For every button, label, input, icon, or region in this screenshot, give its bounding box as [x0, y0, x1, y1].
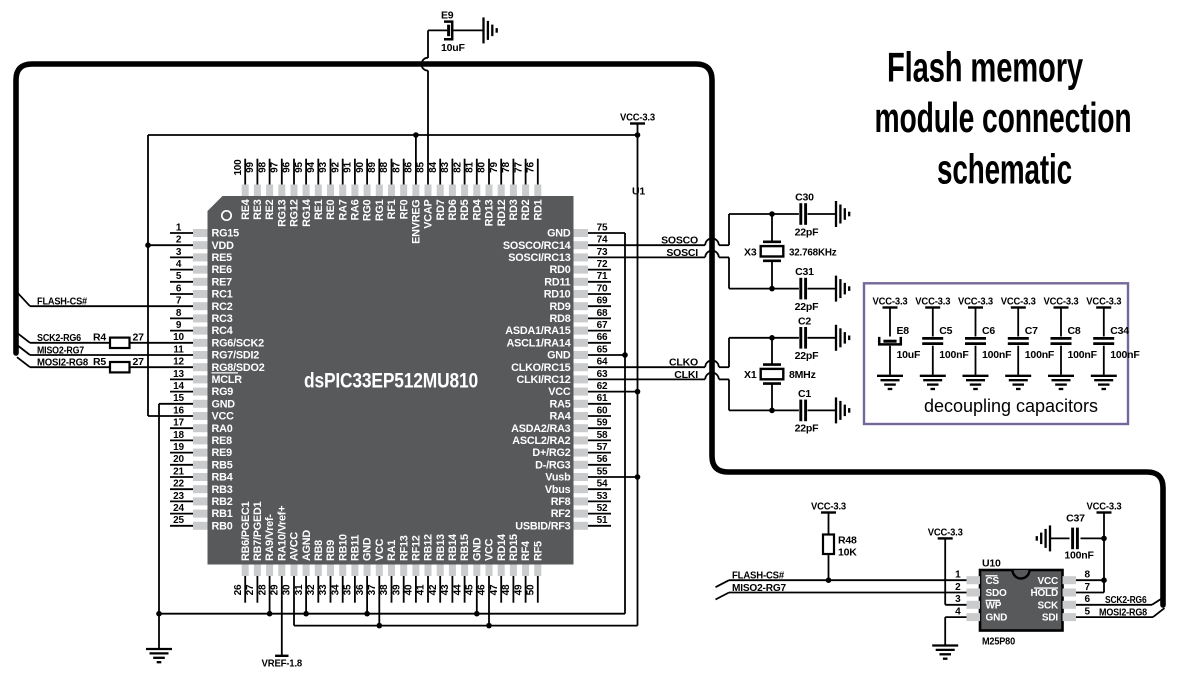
U1 pin 86 (ENVREG) — [404, 162, 423, 244]
svg-text:8MHz: 8MHz — [789, 369, 816, 381]
svg-text:RG14: RG14 — [301, 199, 313, 227]
U1 pin 100 (RE4) — [233, 159, 252, 220]
wire pin 29 Vref+ down — [281, 576, 283, 656]
svg-text:90: 90 — [355, 162, 366, 173]
svg-text:VCC: VCC — [548, 386, 571, 398]
U1 pin 65 (GND) — [547, 344, 608, 361]
svg-text:36: 36 — [355, 584, 366, 595]
VREF-1.8 terminal bar — [275, 655, 288, 657]
svg-text:88: 88 — [379, 162, 390, 173]
svg-text:14: 14 — [173, 381, 184, 392]
wire pin 45 to gnd rail — [476, 576, 478, 614]
VCC-3.3 power symbol (U10 WP) — [928, 527, 963, 539]
svg-text:33: 33 — [318, 584, 329, 595]
svg-text:23: 23 — [173, 491, 184, 502]
junction node pin 62 — [635, 389, 641, 395]
svg-text:29: 29 — [270, 584, 281, 595]
wire VCAP to capacitor E9 — [428, 29, 447, 31]
svg-text:GND: GND — [986, 613, 1008, 624]
U1 pin 85 (VCAP) — [416, 162, 435, 229]
svg-text:60: 60 — [597, 405, 608, 416]
svg-text:SCK2-RG6: SCK2-RG6 — [1105, 594, 1147, 606]
decoupling capacitors box — [864, 283, 1128, 424]
U1 pin 68 (RD8) — [550, 308, 612, 325]
svg-text:SOSCO: SOSCO — [661, 235, 698, 247]
svg-text:VCC-3.3: VCC-3.3 — [1001, 296, 1036, 308]
svg-text:10uF: 10uF — [897, 349, 921, 361]
svg-text:30: 30 — [282, 584, 293, 595]
wire C37 to ground — [1050, 537, 1070, 539]
svg-text:37: 37 — [367, 584, 378, 595]
svg-text:15: 15 — [173, 393, 184, 404]
main module border wire (thick) — [16, 64, 1163, 605]
wire pin 36 to gnd rail — [366, 576, 368, 614]
wire VCC-3.3 to rail corner — [637, 124, 639, 136]
svg-text:C5: C5 — [939, 325, 952, 337]
U1 pin 98 (RE2) — [257, 159, 276, 220]
svg-text:75: 75 — [597, 222, 608, 233]
wire U10 pin 6 SCK to border — [1076, 604, 1152, 606]
wire C30 to ground — [808, 213, 837, 215]
resistor R48 body — [823, 535, 834, 555]
wire VCC to E8 — [889, 308, 891, 337]
ground symbol (E9) — [484, 17, 497, 43]
U1 pin 69 (RD9) — [550, 296, 612, 313]
ground symbol (C30) — [836, 201, 849, 227]
svg-text:GND: GND — [547, 350, 571, 362]
svg-text:RG6/SCK2: RG6/SCK2 — [212, 337, 265, 349]
svg-text:RF13: RF13 — [398, 535, 410, 561]
wire U10 pin 7 HOLD — [1076, 592, 1104, 594]
svg-text:SDI: SDI — [1042, 613, 1058, 624]
svg-text:5: 5 — [1085, 607, 1091, 618]
svg-text:RE1: RE1 — [313, 199, 325, 220]
junction node crystal top — [769, 211, 775, 217]
wire R48 to FLASH-CS# wire — [828, 554, 830, 580]
wire pin 55 Vusb — [588, 476, 638, 478]
U10 pin 7 (HOLD) — [1030, 582, 1090, 599]
svg-text:43: 43 — [440, 584, 451, 595]
U1 pin 50 (RF5) — [526, 541, 545, 603]
svg-text:RD10: RD10 — [544, 289, 571, 301]
svg-text:CS: CS — [986, 576, 1000, 587]
svg-text:CLKI/RC12: CLKI/RC12 — [517, 374, 571, 386]
U10 pin 3 (WP) — [955, 594, 1002, 611]
U1 pin 6 (RC1) — [170, 283, 233, 300]
wire SCK2-RG6 to resistor R4 — [30, 342, 110, 344]
svg-text:VCC-3.3: VCC-3.3 — [1086, 296, 1121, 308]
svg-text:77: 77 — [513, 162, 524, 173]
U1 pin 57 (D+/RG2) — [532, 442, 611, 459]
wire C2 to ground — [808, 337, 837, 339]
U1 pin 80 (RD13) — [477, 159, 496, 227]
svg-text:RB11: RB11 — [350, 535, 362, 561]
svg-text:RF5: RF5 — [532, 541, 544, 561]
diagonal stub FLASH-CS# — [17, 292, 30, 306]
svg-text:USBID/RF3: USBID/RF3 — [515, 520, 570, 532]
capacitor E9 (electrolytic, horizontal) — [447, 25, 450, 37]
svg-text:RA9/Vref-: RA9/Vref- — [264, 514, 276, 561]
svg-text:ASCL2/RA2: ASCL2/RA2 — [512, 435, 570, 447]
svg-text:HOLD: HOLD — [1030, 588, 1058, 599]
svg-text:Flash memory: Flash memory — [887, 44, 1083, 91]
svg-text:4: 4 — [955, 607, 961, 618]
microcontroller U1 dsPIC33EP512MU810 body — [208, 196, 574, 565]
svg-text:VCC-3.3: VCC-3.3 — [873, 296, 908, 308]
svg-text:22: 22 — [173, 479, 184, 490]
svg-text:44: 44 — [452, 584, 463, 595]
U1 pin 30 (AVCC) — [282, 532, 301, 596]
svg-text:82: 82 — [452, 162, 463, 173]
U1 pin 35 (RB11) — [343, 535, 362, 603]
svg-text:100nF: 100nF — [1068, 349, 1098, 361]
U1 pin 52 (RF2) — [551, 503, 611, 520]
wire pin 31 to gnd rail — [305, 576, 307, 614]
svg-text:70: 70 — [597, 283, 608, 294]
svg-text:U1: U1 — [632, 186, 645, 198]
svg-text:VCC-3.3: VCC-3.3 — [620, 112, 655, 124]
svg-text:ENVREG: ENVREG — [411, 200, 423, 244]
svg-text:27: 27 — [133, 332, 145, 344]
U1 pin 93 (RE0) — [318, 159, 337, 220]
crystal X3 symbol — [771, 214, 773, 241]
junction node R48/FLASH-CS# — [826, 577, 832, 583]
svg-text:46: 46 — [477, 584, 488, 595]
svg-text:RB9: RB9 — [325, 540, 337, 561]
resistor R5 body — [110, 362, 130, 372]
svg-text:51: 51 — [597, 515, 608, 526]
svg-text:WP: WP — [986, 600, 1002, 611]
svg-text:RG15: RG15 — [212, 228, 240, 240]
resistor R4 body — [110, 338, 130, 348]
capacitor C1 plates — [799, 400, 802, 422]
svg-text:53: 53 — [597, 491, 608, 502]
U1 pin 33 (RB9) — [318, 540, 337, 603]
svg-text:100nF: 100nF — [982, 349, 1012, 361]
U10 pin 2 (SDO) — [955, 582, 1007, 599]
wire VCC rail left vertical to pin 16 — [147, 135, 149, 416]
svg-text:RB14: RB14 — [447, 534, 459, 561]
svg-text:RC2: RC2 — [212, 301, 233, 313]
wire U10 pin 4 GND to ground — [945, 616, 966, 618]
wire VCC to R48 — [828, 513, 830, 535]
wire VCC to U10 pin 3 WP — [944, 538, 946, 604]
svg-text:26: 26 — [233, 584, 244, 595]
svg-text:11: 11 — [173, 344, 184, 355]
svg-text:64: 64 — [597, 357, 608, 368]
GND bottom rail wire — [159, 613, 625, 615]
svg-text:27: 27 — [245, 584, 256, 595]
svg-text:7: 7 — [176, 296, 182, 307]
svg-text:SCK: SCK — [1037, 600, 1058, 611]
ground symbol (C37) — [1037, 525, 1050, 551]
U1 pin 89 (RG1) — [367, 159, 386, 221]
svg-text:RF0: RF0 — [398, 199, 410, 219]
svg-text:92: 92 — [330, 162, 341, 173]
svg-text:RD6: RD6 — [447, 199, 459, 220]
GND right vertical wire — [624, 233, 626, 614]
svg-text:RD3: RD3 — [508, 199, 520, 220]
svg-text:VREF-1.8: VREF-1.8 — [262, 658, 303, 670]
U1 pin 82 (RD5) — [452, 159, 471, 221]
svg-text:39: 39 — [391, 584, 402, 595]
svg-text:3: 3 — [176, 247, 182, 258]
svg-text:RC1: RC1 — [212, 289, 233, 301]
svg-text:100: 100 — [233, 159, 244, 176]
ground symbol (C5) — [920, 376, 946, 389]
svg-text:55: 55 — [597, 466, 608, 477]
svg-text:16: 16 — [173, 405, 184, 416]
svg-text:RD15: RD15 — [508, 534, 520, 561]
wire hop (CLK top) — [705, 360, 719, 367]
svg-text:47: 47 — [489, 584, 500, 595]
U1 pin 44 (RB15) — [452, 534, 471, 603]
U1 pin 78 (RD3) — [501, 159, 520, 221]
svg-text:RB4: RB4 — [212, 472, 233, 484]
junction node pin 46 vcc — [486, 623, 492, 629]
svg-text:CLKO/RC15: CLKO/RC15 — [511, 362, 571, 374]
svg-text:17: 17 — [173, 418, 184, 429]
svg-text:RG8/SDO2: RG8/SDO2 — [212, 362, 265, 374]
U1 pin 36 (GND) — [355, 537, 374, 595]
svg-text:2: 2 — [176, 235, 182, 246]
wire R4 to pin 10 — [130, 342, 194, 344]
svg-text:50: 50 — [526, 584, 537, 595]
svg-text:RE6: RE6 — [212, 264, 233, 276]
U1 pin 63 (CLKI/RC12) — [517, 369, 608, 386]
U1 pin 13 (MCLR) — [170, 369, 242, 386]
VCC-3.3 power symbol (C8) — [1044, 296, 1079, 308]
svg-text:32: 32 — [306, 584, 317, 595]
svg-text:3: 3 — [955, 594, 961, 605]
svg-text:RD9: RD9 — [550, 301, 571, 313]
U1 pin 49 (RF4) — [513, 541, 532, 603]
U1 pin 16 (VCC) — [173, 405, 234, 422]
U1 pin 27 (RB7/PGED1) — [245, 501, 264, 602]
U1 pin 79 (RD12) — [489, 159, 508, 227]
svg-text:U10: U10 — [982, 558, 1001, 570]
U1 pin 11 (RG7/SDI2) — [173, 344, 259, 361]
svg-text:ASCL1/RA14: ASCL1/RA14 — [507, 337, 571, 349]
svg-text:dsPIC33EP512MU810: dsPIC33EP512MU810 — [304, 369, 478, 393]
wire MOSI2-RG8 to resistor R5 — [30, 366, 110, 368]
svg-text:56: 56 — [597, 454, 608, 465]
svg-text:100nF: 100nF — [939, 349, 969, 361]
svg-text:E8: E8 — [897, 325, 910, 337]
svg-text:41: 41 — [416, 584, 427, 595]
svg-text:VCC-3.3: VCC-3.3 — [1087, 501, 1122, 513]
diagonal stub SCK2-RG6 — [17, 333, 30, 343]
svg-text:VCC-3.3: VCC-3.3 — [915, 296, 950, 308]
svg-text:24: 24 — [173, 503, 184, 514]
U1 pin 7 (RC2) — [176, 296, 233, 313]
U1 pin 73 (SOSCI/RC13) — [508, 247, 608, 264]
svg-text:RE4: RE4 — [240, 199, 252, 220]
wire C37 to VCC vertical — [1081, 537, 1105, 539]
svg-text:8: 8 — [1085, 570, 1091, 581]
svg-text:RF1: RF1 — [386, 199, 398, 219]
wire hop (CLK bottom) — [705, 373, 719, 380]
svg-text:RE8: RE8 — [212, 435, 233, 447]
svg-text:MISO2-RG7: MISO2-RG7 — [37, 344, 84, 356]
diagonal stub MOSI2-RG8 (right) — [1153, 608, 1165, 617]
svg-text:C34: C34 — [1110, 325, 1129, 337]
U1 pin 81 (RD4) — [465, 159, 484, 221]
ground symbol (C34) — [1091, 376, 1117, 389]
ground symbol (main, bottom left) — [146, 649, 172, 662]
U1 pin 71 (RD11) — [544, 271, 611, 288]
U10 pin 6 (SCK) — [1037, 594, 1090, 611]
junction node crystal bottom — [769, 286, 775, 292]
svg-text:RD7: RD7 — [435, 199, 447, 220]
U1 pin-1 indicator circle — [222, 211, 231, 220]
svg-text:RD8: RD8 — [550, 313, 571, 325]
svg-text:RD0: RD0 — [550, 264, 571, 276]
svg-text:C6: C6 — [982, 325, 995, 337]
svg-text:RD4: RD4 — [471, 199, 483, 220]
svg-text:61: 61 — [597, 393, 608, 404]
U1 pin 24 (RB1) — [170, 503, 233, 520]
svg-text:2: 2 — [955, 582, 961, 593]
svg-text:35: 35 — [343, 584, 354, 595]
svg-text:RF12: RF12 — [411, 535, 423, 561]
U1 pin 96 (RG12) — [282, 159, 301, 227]
wire VCC down to pin 8 node — [1103, 513, 1105, 581]
U1 pin 72 (RD0) — [550, 259, 612, 276]
wire crystal bottom rail — [729, 409, 799, 411]
svg-text:ASDA1/RA15: ASDA1/RA15 — [505, 325, 570, 337]
svg-text:RE0: RE0 — [325, 199, 337, 220]
svg-text:RE5: RE5 — [212, 252, 233, 264]
svg-text:RD2: RD2 — [520, 199, 532, 220]
svg-text:63: 63 — [597, 369, 608, 380]
U1 pin 74 (SOSCO/RC14) — [503, 235, 608, 252]
U1 pin 31 (AGND) — [294, 530, 313, 596]
svg-text:C8: C8 — [1068, 325, 1081, 337]
U1 pin 92 (RA7) — [330, 159, 349, 221]
wire E9 to ground — [453, 29, 483, 31]
wire C34 to ground — [1103, 346, 1105, 375]
U1 pin 2 (VDD) — [176, 235, 234, 252]
svg-text:10: 10 — [173, 332, 184, 343]
svg-text:RA5: RA5 — [550, 398, 571, 410]
svg-text:SCK2-RG6: SCK2-RG6 — [37, 332, 81, 344]
U1 pin 1 (RG15) — [170, 222, 239, 239]
svg-text:RB5: RB5 — [212, 459, 233, 471]
U1 pin 56 (D-/RG3) — [535, 454, 611, 471]
svg-text:RB6/PGEC1: RB6/PGEC1 — [240, 501, 252, 561]
svg-text:45: 45 — [465, 584, 476, 595]
U1 pin 22 (RB3) — [170, 479, 233, 496]
svg-text:71: 71 — [597, 271, 608, 282]
svg-text:X1: X1 — [744, 369, 757, 381]
svg-text:RB0: RB0 — [212, 520, 233, 532]
svg-text:52: 52 — [597, 503, 608, 514]
svg-text:RF8: RF8 — [551, 496, 571, 508]
junction node C37/VCC — [1101, 536, 1107, 542]
wire pin 30 AVCC down — [293, 576, 295, 626]
svg-text:RD5: RD5 — [459, 199, 471, 220]
svg-text:100nF: 100nF — [1110, 349, 1140, 361]
U1 pin 67 (ASDA1/RA15) — [505, 320, 611, 337]
svg-text:95: 95 — [294, 162, 305, 173]
svg-text:RG13: RG13 — [276, 199, 288, 227]
U1 pin 19 (RE9) — [170, 442, 232, 459]
wire MISO2-RG7 to pin 11 — [30, 354, 193, 356]
svg-text:MOSI2-RG8: MOSI2-RG8 — [37, 357, 88, 369]
U1 pin 54 (Vbus) — [545, 479, 611, 496]
svg-text:AGND: AGND — [301, 530, 313, 561]
capacitor C30 plates — [799, 203, 802, 225]
U1 pin 43 (RB14) — [440, 534, 459, 603]
U1 pin 39 (RF13) — [391, 535, 410, 602]
wire pin 15 GND down — [159, 403, 193, 405]
capacitor C34 plates — [1093, 337, 1114, 340]
svg-text:59: 59 — [597, 418, 608, 429]
capacitor C6 plates — [965, 337, 986, 340]
U1 pin 42 (RB13) — [428, 534, 447, 603]
svg-text:28: 28 — [257, 584, 268, 595]
U1 pin 25 (RB0) — [170, 515, 233, 532]
U1 pin 46 (VCC) — [477, 538, 496, 595]
svg-text:58: 58 — [597, 430, 608, 441]
VCC bottom rail wire — [294, 625, 638, 627]
svg-text:100nF: 100nF — [1025, 349, 1055, 361]
U1 pin 58 (ASCL2/RA2) — [512, 430, 611, 447]
wire CLK bottom pin to crystal rail — [588, 378, 705, 380]
svg-text:AVCC: AVCC — [289, 532, 301, 561]
svg-text:100nF: 100nF — [1064, 550, 1094, 562]
wire C6 to ground — [975, 346, 977, 375]
svg-text:module connection: module connection — [875, 94, 1132, 141]
svg-text:62: 62 — [597, 381, 608, 392]
wire hop (SOSC top) — [705, 238, 719, 245]
svg-text:65: 65 — [597, 344, 608, 355]
wire U10 pin 8 VCC — [1076, 579, 1104, 581]
junction node pin 45 gnd — [474, 611, 480, 617]
svg-text:RB2: RB2 — [212, 496, 233, 508]
U1 pin 90 (RG0) — [355, 159, 374, 221]
junction node VDD pin 2 — [145, 242, 151, 248]
junction node pin 36 gnd — [364, 611, 370, 617]
svg-text:12: 12 — [173, 357, 184, 368]
svg-text:21: 21 — [173, 466, 184, 477]
U10 notch — [1013, 570, 1030, 579]
svg-text:RC4: RC4 — [212, 325, 233, 337]
U1 pin 87 (RF0) — [391, 159, 410, 220]
svg-text:SOSCI/RC13: SOSCI/RC13 — [508, 252, 570, 264]
svg-text:C37: C37 — [1066, 513, 1085, 525]
svg-text:FLASH-CS#: FLASH-CS# — [37, 296, 87, 308]
svg-text:RD14: RD14 — [496, 534, 508, 561]
svg-text:RA1: RA1 — [386, 540, 398, 561]
svg-text:D+/RG2: D+/RG2 — [532, 447, 570, 459]
svg-text:6: 6 — [1085, 594, 1091, 605]
svg-text:RD13: RD13 — [484, 199, 496, 226]
U1 pin 23 (RB2) — [170, 491, 233, 508]
svg-text:RF4: RF4 — [520, 541, 532, 561]
svg-text:54: 54 — [597, 479, 608, 490]
diagonal stub FLASH-CS# (bottom) — [716, 580, 730, 587]
wire VCC to C6 — [975, 308, 977, 337]
svg-text:RD1: RD1 — [532, 199, 544, 220]
ground symbol (C2) — [836, 325, 849, 351]
ground symbol (C7) — [1005, 376, 1031, 389]
svg-text:78: 78 — [501, 162, 512, 173]
U1 pin 66 (ASCL1/RA14) — [507, 332, 612, 349]
svg-text:VCC-3.3: VCC-3.3 — [811, 501, 846, 513]
ground symbol (C31) — [836, 276, 849, 302]
